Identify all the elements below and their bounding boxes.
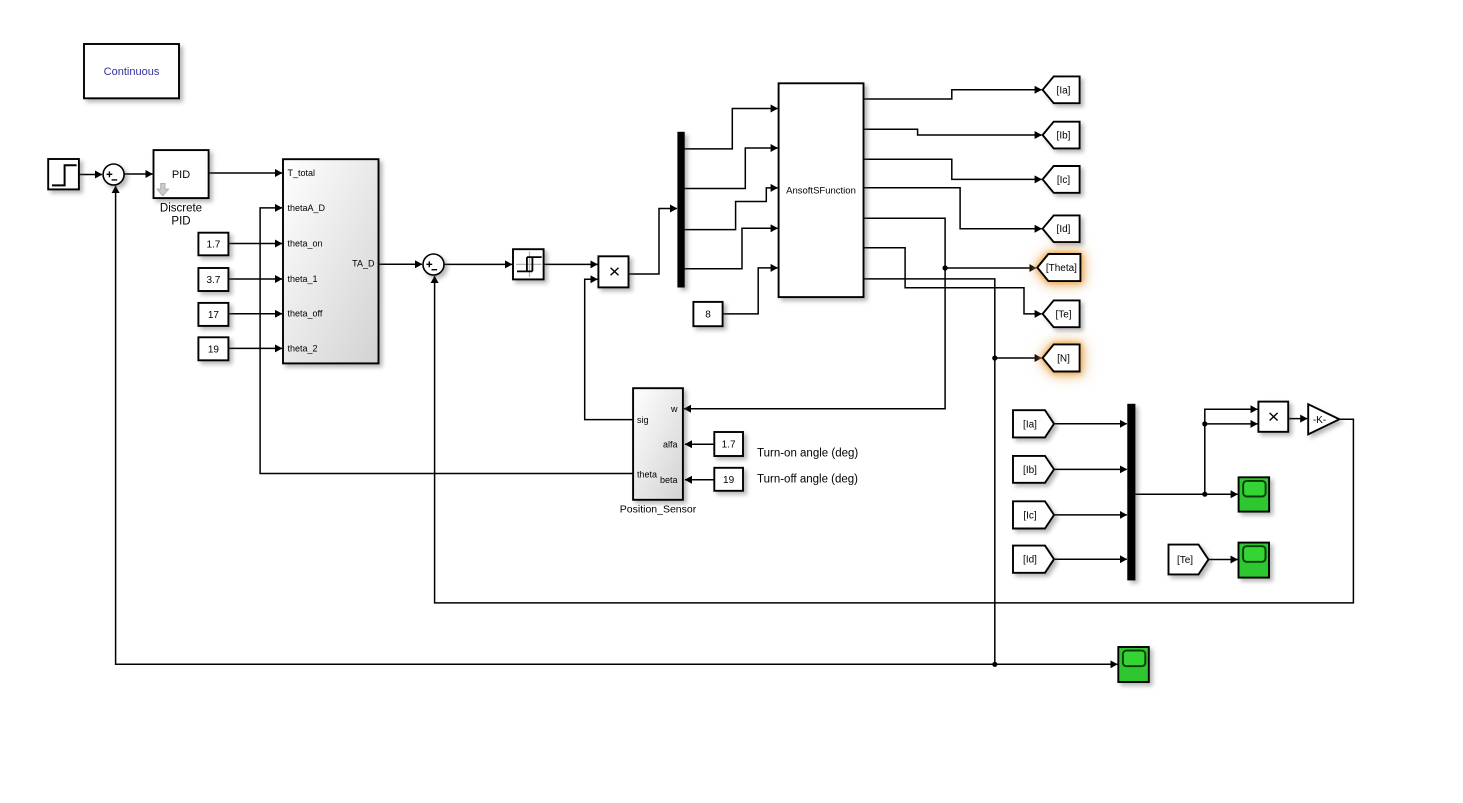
from tag [Ia] (1013, 410, 1054, 437)
svg-text:w: w (670, 404, 678, 414)
constant 3.7 (198, 268, 228, 291)
node product2 input branch (1202, 421, 1207, 426)
svg-text:alfa: alfa (663, 440, 678, 450)
gain -K- (1308, 404, 1339, 434)
block Step (48, 159, 79, 189)
mux Mux2 (1128, 404, 1135, 580)
constant 17 (198, 303, 228, 326)
svg-text:theta: theta (637, 470, 657, 480)
wire from Ic to mux2 (1054, 514, 1127, 516)
node N branch (992, 355, 997, 360)
goto tag [Ib] (1043, 122, 1080, 149)
node theta branch (943, 265, 948, 270)
svg-text:beta: beta (660, 475, 678, 485)
wire sfunction out1 to goto Ia (864, 90, 1042, 99)
wire demux out1 to sfunction in1 (684, 109, 777, 149)
subsystem Position_Sensor (633, 388, 683, 500)
svg-text:T_total: T_total (288, 168, 316, 178)
scope Scope3 (1118, 647, 1149, 682)
from tag [Id] (1013, 546, 1054, 573)
block Continuous (powergui) (84, 44, 179, 98)
block AnsoftSFunction (779, 83, 864, 297)
wire const 17 to theta_off (228, 313, 282, 315)
wire TA_D to sum2 (379, 263, 423, 265)
wire theta feedback to thetaA_D (260, 208, 633, 474)
wire const 8 to sfunction in5 (723, 268, 778, 314)
svg-text:AnsoftSFunction: AnsoftSFunction (786, 185, 856, 196)
demux Demux1 (678, 132, 684, 287)
goto tag [Te] (1043, 300, 1080, 327)
svg-text:[Te]: [Te] (1055, 309, 1071, 320)
svg-text:17: 17 (208, 310, 220, 321)
svg-text:[Theta]: [Theta] (1046, 263, 1077, 274)
constant 1.7 (198, 233, 228, 256)
wire PID to T_total (209, 172, 282, 174)
label Discrete PID (160, 203, 202, 228)
svg-text:8: 8 (705, 310, 711, 321)
wire branch to product2 upper input (1205, 409, 1258, 424)
block Relay (513, 249, 544, 279)
block Product2 (1258, 402, 1288, 432)
svg-text:thetaA_D: thetaA_D (288, 203, 326, 213)
svg-text:Turn-off angle (deg): Turn-off angle (deg) (757, 473, 858, 485)
svg-text:[N]: [N] (1057, 354, 1070, 365)
svg-text:Continuous: Continuous (104, 66, 160, 78)
svg-text:[Ic]: [Ic] (1023, 510, 1037, 521)
svg-text:sig: sig (637, 415, 649, 425)
svg-text:[Id]: [Id] (1057, 224, 1071, 235)
svg-text:19: 19 (723, 475, 735, 486)
wire speed to scope3 (995, 663, 1118, 665)
block Discrete PID (154, 150, 209, 198)
node mux2 output branch (1202, 492, 1207, 497)
wire product2 to gain (1288, 418, 1307, 420)
wire const 19 to beta (685, 479, 714, 481)
svg-text:theta_on: theta_on (288, 238, 323, 248)
wire from Te to scope2 (1208, 559, 1237, 561)
svg-text:3.7: 3.7 (206, 275, 220, 286)
svg-text:PID: PID (171, 216, 190, 228)
svg-text:-K-: -K- (1313, 415, 1326, 426)
wire from Ib to mux2 (1054, 468, 1127, 470)
svg-text:[Id]: [Id] (1023, 555, 1037, 566)
svg-text:[Ic]: [Ic] (1057, 175, 1071, 186)
svg-text:PID: PID (172, 169, 190, 181)
svg-text:[Ib]: [Ib] (1023, 465, 1037, 476)
wire sfunction out6 to goto Te (864, 248, 1042, 314)
svg-text:[Ia]: [Ia] (1057, 85, 1071, 96)
svg-text:1.7: 1.7 (206, 240, 220, 251)
wire const 1.7 to alfa (685, 443, 714, 445)
wire sfunction out3 to goto Ic (864, 159, 1042, 179)
constant 1.7 (turn-on) (714, 432, 743, 456)
svg-text:TA_D: TA_D (352, 259, 375, 269)
wire gain feedback to sum2 (435, 276, 1354, 603)
wire const 3.7 to theta_1 (228, 278, 282, 280)
wire sum2 to relay (444, 263, 512, 265)
svg-text:Discrete: Discrete (160, 203, 202, 215)
wire N branch down (994, 358, 996, 664)
wire sfunction out5 to goto Theta (864, 218, 1037, 268)
wire demux out2 to sfunction in2 (684, 148, 777, 189)
svg-text:1.7: 1.7 (722, 440, 736, 451)
svg-text:[Te]: [Te] (1177, 555, 1193, 566)
wire sfunction out7 to goto N (864, 279, 1042, 358)
svg-text:Position_Sensor: Position_Sensor (620, 504, 697, 516)
svg-text:Turn-on angle (deg): Turn-on angle (deg) (757, 448, 858, 460)
scope Scope2 (1239, 543, 1270, 578)
svg-text:theta_off: theta_off (288, 309, 323, 319)
svg-text:[Ia]: [Ia] (1023, 419, 1037, 430)
block Product1 (598, 256, 628, 287)
goto tag [N] highlighted (1043, 344, 1080, 371)
wire speed feedback to sum1 (116, 186, 995, 664)
svg-text:19: 19 (208, 345, 220, 356)
scope Scope1 (1239, 477, 1270, 511)
wire sfunction out4 to goto Id (864, 188, 1042, 229)
wire relay to product1 (544, 263, 598, 265)
constant 8 (693, 302, 722, 326)
wire demux out4 to sfunction in4 (684, 228, 777, 268)
subsystem TA_D calculator (283, 159, 379, 363)
svg-text:theta_1: theta_1 (288, 274, 318, 284)
wire const 1.7 to theta_on (228, 243, 282, 245)
sum Sum2 (423, 254, 444, 275)
wire sfunction out2 to goto Ib (864, 129, 1042, 135)
wire branch to product2 lower input (1205, 424, 1258, 494)
from tag [Te] (1169, 545, 1209, 575)
goto tag [Ia] (1043, 76, 1080, 103)
constant 19 (198, 337, 228, 360)
wire theta branch to w input (684, 268, 945, 409)
goto tag [Id] (1043, 215, 1080, 242)
wire sig to product1 (585, 279, 633, 419)
goto tag [Theta] highlighted (1037, 254, 1080, 281)
wire from Id to mux2 (1054, 558, 1127, 560)
wire mux2 to scope1 (1135, 493, 1238, 495)
node speed branch (992, 662, 997, 667)
wire from Ia to mux2 (1054, 423, 1127, 425)
from tag [Ib] (1013, 456, 1054, 483)
sum Sum1 (103, 164, 124, 185)
wire step to sum1 (79, 174, 102, 176)
svg-text:[Ib]: [Ib] (1057, 131, 1071, 142)
wire sum1 to PID (124, 173, 152, 175)
from tag [Ic] (1013, 501, 1054, 528)
wire const 19 to theta_2 (228, 347, 282, 349)
goto tag [Ic] (1043, 166, 1080, 193)
wire demux out3 to sfunction in3 (684, 188, 777, 230)
svg-text:theta_2: theta_2 (288, 343, 318, 353)
constant 19 (turn-off) (714, 468, 743, 491)
wire product1 to demux (629, 209, 677, 275)
